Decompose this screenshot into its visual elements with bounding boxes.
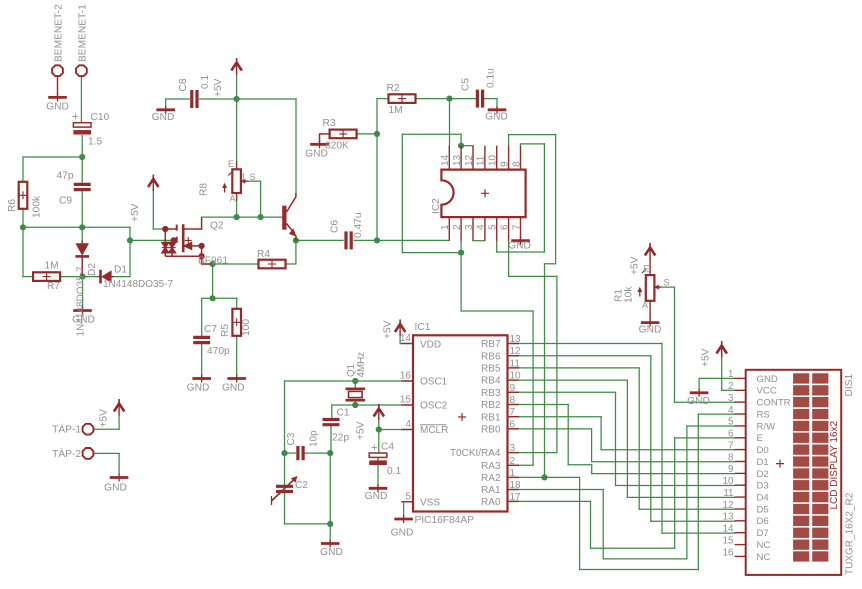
svg-text:GND: GND: [46, 102, 69, 113]
svg-text:R4: R4: [257, 249, 270, 260]
wire: [329, 453, 331, 524]
wire: [402, 252, 461, 254]
svg-text:10p: 10p: [309, 430, 320, 447]
wire: [496, 241, 498, 252]
svg-text:C9: C9: [59, 196, 72, 207]
wire: [284, 381, 286, 453]
svg-text:NC: NC: [757, 540, 771, 551]
connector BEMENET-2 pad: [52, 65, 63, 76]
svg-text:R7: R7: [47, 281, 60, 292]
resistor R2: [389, 94, 416, 103]
svg-text:10k: 10k: [624, 286, 635, 303]
svg-text:BEMENET-1: BEMENET-1: [77, 4, 88, 62]
svg-text:D2: D2: [757, 469, 769, 480]
wire: [60, 276, 83, 278]
+5V arrow at R1: [649, 243, 651, 249]
svg-text:13: 13: [723, 512, 734, 523]
svg-text:8: 8: [728, 452, 734, 463]
capacitor C3: [298, 446, 303, 460]
wire: [236, 200, 238, 217]
wire: [330, 426, 332, 453]
wire: [377, 98, 389, 100]
ground under R5: [227, 377, 246, 380]
svg-text:1: 1: [241, 172, 246, 182]
capacitor C10: [73, 123, 91, 127]
node junction dot: [458, 250, 464, 256]
node junction dot: [446, 96, 452, 102]
capacitor C9: [74, 183, 91, 186]
svg-text:14: 14: [723, 524, 734, 535]
node junction dot: [541, 474, 547, 480]
node junction dot: [258, 214, 264, 220]
resistor R5: [232, 309, 241, 336]
node junction dot: [234, 214, 240, 220]
wire: [511, 379, 627, 381]
wire: [94, 428, 119, 430]
svg-text:9: 9: [510, 383, 516, 394]
ground under BEMENET-2: [57, 76, 59, 95]
wire: [81, 227, 83, 240]
ground under C8: [156, 108, 175, 111]
svg-text:2: 2: [510, 456, 516, 467]
svg-text:S: S: [250, 172, 256, 182]
wire: [319, 134, 321, 142]
wire: [81, 260, 83, 277]
potentiometer R1: [646, 275, 655, 301]
wire: [590, 501, 592, 548]
wire: [568, 464, 592, 466]
wire: [377, 465, 379, 486]
wire: [399, 333, 401, 344]
wire: [202, 297, 213, 299]
transistor Q2 (BF961 dual-gate MOSFET): [162, 217, 211, 264]
wire: [591, 429, 593, 462]
svg-text:BEMENET-2: BEMENET-2: [54, 4, 65, 62]
svg-text:DIS1: DIS1: [844, 374, 855, 397]
svg-text:RB3: RB3: [481, 388, 501, 399]
svg-text:2: 2: [728, 381, 733, 392]
node junction dot: [79, 274, 85, 280]
wire: [592, 461, 735, 463]
wire: [236, 99, 238, 162]
IC2 bottom pins 1-7: [448, 217, 450, 241]
svg-text:RB2: RB2: [481, 400, 501, 411]
resistor R6: [19, 182, 28, 209]
svg-text:D6: D6: [757, 516, 769, 527]
node junction dot: [352, 378, 358, 384]
wire: [511, 500, 591, 502]
wire: [511, 391, 616, 393]
potentiometer R8: [232, 169, 241, 193]
svg-text:1.5: 1.5: [88, 137, 102, 148]
svg-text:PIC16F84AP: PIC16F84AP: [415, 515, 475, 526]
svg-text:A: A: [642, 300, 648, 310]
capacitor C1: [323, 420, 340, 425]
svg-text:6: 6: [499, 224, 510, 230]
connector TAP-1 pad: [83, 424, 94, 435]
wire: [285, 380, 414, 382]
wire: [82, 277, 84, 305]
svg-text:0.1: 0.1: [387, 466, 401, 477]
svg-text:3: 3: [464, 224, 475, 230]
node junction dot: [352, 402, 358, 408]
svg-text:14: 14: [400, 333, 412, 344]
svg-text:9: 9: [499, 161, 510, 167]
svg-text:10: 10: [510, 371, 522, 382]
wire: [376, 99, 378, 241]
wire: [496, 99, 498, 108]
wire: [521, 143, 545, 145]
svg-text:+5V: +5V: [99, 409, 110, 428]
svg-text:C4: C4: [381, 442, 394, 453]
node junction dot: [374, 131, 380, 137]
svg-text:10: 10: [723, 476, 734, 487]
wire: [532, 311, 534, 465]
svg-text:GND: GND: [508, 241, 531, 252]
wire: [331, 405, 333, 418]
ground under C1/C2/C3: [321, 542, 340, 545]
svg-text:22p: 22p: [332, 433, 349, 444]
svg-text:10: 10: [488, 154, 499, 166]
svg-text:R8: R8: [199, 183, 210, 196]
svg-text:C7: C7: [204, 324, 217, 335]
+5V arrow at MCLR: [378, 404, 380, 410]
node junction dot: [20, 224, 26, 230]
wire: [675, 437, 735, 439]
svg-text:GND: GND: [187, 383, 210, 394]
svg-text:E: E: [644, 264, 650, 274]
wire: [721, 354, 723, 390]
wire: [94, 452, 119, 454]
svg-text:E: E: [228, 159, 234, 169]
svg-text:RS: RS: [757, 409, 770, 420]
svg-text:GND: GND: [391, 528, 414, 539]
svg-text:+5V: +5V: [130, 203, 141, 222]
svg-text:47p: 47p: [57, 171, 74, 182]
svg-text:D1: D1: [114, 265, 127, 276]
wire: [655, 286, 675, 288]
wire: [511, 428, 592, 430]
wire: [450, 98, 477, 100]
svg-text:7: 7: [510, 407, 516, 418]
wire: [201, 298, 203, 336]
svg-text:C1: C1: [337, 408, 350, 419]
node junction dot: [374, 237, 380, 243]
svg-text:470p: 470p: [207, 346, 230, 357]
wire: [638, 368, 640, 509]
wire: [213, 297, 237, 299]
connector TAP-2 pad: [83, 448, 94, 459]
wire: [511, 343, 662, 345]
wire: [520, 144, 522, 146]
wire: [556, 276, 558, 452]
svg-text:RA0: RA0: [481, 497, 501, 508]
LCD character cells: [793, 373, 828, 561]
svg-text:13: 13: [452, 154, 463, 166]
svg-text:VSS: VSS: [420, 497, 440, 508]
svg-text:+5V: +5V: [701, 348, 712, 367]
svg-text:RB4: RB4: [481, 376, 501, 387]
svg-text:4: 4: [728, 405, 734, 416]
svg-text:D5: D5: [757, 504, 769, 515]
wire: [403, 502, 405, 517]
node junction dot: [210, 261, 216, 267]
+5V arrow near Q2: [152, 175, 154, 181]
wire: [22, 227, 24, 276]
wire: [22, 209, 24, 228]
op-amp/IC IC2 (14-pin DIP) body: [441, 170, 525, 218]
svg-text:2: 2: [452, 224, 463, 230]
wire: [511, 355, 651, 357]
wire: [378, 430, 380, 453]
svg-text:MCLR: MCLR: [420, 425, 448, 436]
svg-text:6: 6: [510, 419, 516, 430]
ground under C7: [192, 377, 211, 380]
wire: [153, 228, 163, 230]
wire: [23, 156, 82, 158]
wire: [722, 389, 735, 391]
svg-text:R2: R2: [387, 83, 400, 94]
wire: [284, 493, 286, 524]
wire: [356, 133, 377, 135]
potentiometer R1 red leads: [649, 258, 651, 321]
wire: [603, 558, 687, 560]
svg-text:GND: GND: [222, 383, 245, 394]
wire: [511, 416, 601, 418]
svg-text:5: 5: [405, 491, 411, 502]
IC2 top pins 14-8: [448, 146, 450, 170]
svg-text:Q2: Q2: [210, 221, 224, 232]
svg-text:16: 16: [400, 371, 412, 382]
svg-text:C5: C5: [461, 78, 472, 91]
wire: [473, 240, 485, 242]
wire: [165, 99, 167, 108]
svg-text:8: 8: [510, 395, 516, 406]
wire: [509, 134, 556, 136]
potentiometer R8 red leads: [236, 162, 238, 201]
wire: [699, 377, 735, 379]
svg-text:RB7: RB7: [481, 339, 501, 350]
wire: [544, 264, 546, 478]
svg-text:D7: D7: [757, 528, 769, 539]
svg-text:12: 12: [723, 500, 734, 511]
svg-text:TUXGR_16X2_R2: TUXGR_16X2_R2: [845, 492, 856, 575]
svg-text:GND: GND: [757, 374, 778, 385]
wire: [600, 417, 602, 450]
wire: [236, 72, 238, 99]
wire: [130, 239, 171, 241]
wire: [354, 381, 356, 388]
svg-text:D0: D0: [757, 445, 769, 456]
wire: [23, 226, 130, 228]
wire: [661, 344, 663, 534]
svg-text:E: E: [757, 433, 763, 444]
wire: [511, 476, 545, 478]
wire: [284, 453, 286, 485]
svg-text:IC2: IC2: [431, 198, 442, 214]
node junction dot: [234, 96, 240, 102]
wire: [402, 133, 461, 135]
svg-text:11: 11: [723, 488, 733, 499]
wire: [511, 404, 568, 406]
svg-text:D1: D1: [757, 457, 769, 468]
wire: [675, 401, 735, 403]
wire: [296, 239, 343, 241]
wire: [461, 145, 473, 147]
wire: [329, 524, 331, 542]
+5V arrow at LCD VCC: [721, 341, 723, 347]
wire: [592, 473, 735, 475]
wire: [580, 569, 699, 571]
svg-text:TÁP-2: TÁP-2: [52, 447, 81, 460]
wire: [112, 276, 130, 278]
svg-text:RA2: RA2: [481, 473, 501, 484]
wire: [511, 489, 603, 491]
wire: [81, 157, 83, 184]
capacitor C4: [369, 453, 387, 457]
wire: [295, 240, 297, 264]
wire: [545, 476, 580, 478]
wire: [118, 453, 120, 474]
svg-text:0.1: 0.1: [200, 75, 211, 89]
svg-text:9: 9: [728, 464, 733, 475]
svg-text:100k: 100k: [32, 195, 43, 218]
wire: [461, 310, 533, 312]
+5V arrow at TAP-1: [118, 399, 120, 405]
svg-text:1M: 1M: [389, 105, 403, 116]
wire: [497, 251, 545, 253]
svg-text:LCD DISPLAY 16x2: LCD DISPLAY 16x2: [829, 420, 840, 509]
svg-text:RB0: RB0: [481, 425, 501, 436]
svg-text:17: 17: [510, 492, 522, 503]
wire: [545, 263, 556, 265]
crystal Q1: [346, 389, 366, 400]
LCD display DIS1 body: [746, 370, 842, 575]
wire: [686, 426, 688, 559]
capacitor C5: [476, 90, 479, 108]
svg-text:D2: D2: [87, 263, 98, 276]
wire: [305, 452, 331, 454]
ground under R1: [641, 321, 660, 324]
svg-text:D4: D4: [757, 493, 770, 504]
wire: [449, 99, 451, 146]
svg-text:C8: C8: [178, 78, 189, 91]
wire: [662, 532, 735, 534]
wire: [83, 276, 98, 278]
wire: [616, 485, 735, 487]
resistor R3: [330, 130, 357, 139]
+5V arrow at IC1 VDD: [399, 320, 401, 326]
svg-text:RA1: RA1: [481, 485, 501, 496]
svg-text:1: 1: [440, 224, 451, 230]
svg-text:+5V: +5V: [213, 78, 224, 97]
connector BEMENET-1 pad: [76, 65, 87, 76]
wire: [698, 413, 734, 415]
ground under C4: [369, 487, 388, 490]
svg-text:GND: GND: [104, 483, 127, 494]
wire: [460, 241, 462, 311]
svg-text:+5V: +5V: [383, 320, 394, 339]
wire: [483, 98, 497, 100]
node junction dot: [327, 521, 333, 527]
wire: [377, 239, 449, 241]
svg-text:1N4148DO35-7: 1N4148DO35-7: [76, 266, 87, 336]
wire: [511, 452, 557, 454]
svg-text:820K: 820K: [325, 141, 349, 152]
wire: [81, 190, 83, 227]
svg-text:15: 15: [400, 395, 412, 406]
wire: [236, 336, 238, 377]
node junction dot: [127, 237, 133, 243]
wire: [674, 287, 676, 402]
svg-text:4: 4: [405, 419, 411, 430]
svg-text:+: +: [72, 112, 79, 124]
resistor R4: [259, 260, 286, 269]
svg-text:12: 12: [464, 154, 475, 166]
wire: [202, 263, 213, 265]
svg-text:CONTR: CONTR: [757, 398, 791, 409]
wire: [687, 425, 735, 427]
wire: [260, 181, 262, 217]
node junction dot: [281, 450, 287, 456]
svg-text:RB6: RB6: [481, 351, 501, 362]
svg-text:GND: GND: [365, 491, 388, 502]
svg-text:3: 3: [728, 393, 734, 404]
wire: [378, 418, 380, 430]
wire: [651, 520, 735, 522]
wire: [543, 144, 545, 252]
svg-text:1M: 1M: [45, 261, 59, 272]
svg-text:GND: GND: [152, 112, 175, 123]
node junction dot: [458, 143, 464, 149]
svg-text:16: 16: [723, 547, 734, 558]
svg-text:GND: GND: [687, 396, 710, 407]
wire: [508, 135, 510, 146]
svg-text:R6: R6: [7, 199, 18, 212]
svg-text:TÁP-1: TÁP-1: [52, 423, 81, 436]
ground at VSS: [394, 518, 413, 521]
svg-text:11: 11: [510, 358, 521, 369]
diode D2: [75, 243, 89, 256]
trimmer capacitor C2: [276, 486, 293, 491]
wire: [591, 465, 593, 474]
svg-text:RB5: RB5: [481, 364, 501, 375]
svg-text:+: +: [371, 443, 378, 455]
wire: [286, 263, 296, 265]
svg-text:GND: GND: [320, 547, 343, 558]
wire: [23, 276, 33, 278]
wire: [639, 508, 734, 510]
svg-text:C10: C10: [91, 112, 110, 123]
wire: [166, 98, 190, 100]
svg-text:VDD: VDD: [420, 340, 441, 351]
ground under D2: [82, 305, 84, 311]
wire: [674, 438, 676, 548]
svg-text:C6: C6: [330, 220, 341, 233]
svg-text:IC1: IC1: [415, 322, 431, 333]
svg-text:T0CKI/RA4: T0CKI/RA4: [450, 448, 501, 459]
svg-text:3: 3: [510, 443, 516, 454]
wire: [567, 405, 569, 465]
wire: [627, 496, 734, 498]
diode D1: [99, 270, 102, 284]
node junction dot: [327, 450, 333, 456]
svg-text:4MHz: 4MHz: [356, 352, 367, 378]
capacitor C7: [193, 336, 210, 339]
svg-text:15: 15: [723, 535, 734, 546]
ground at LCD pin1: [690, 391, 709, 394]
wire: [555, 135, 557, 264]
